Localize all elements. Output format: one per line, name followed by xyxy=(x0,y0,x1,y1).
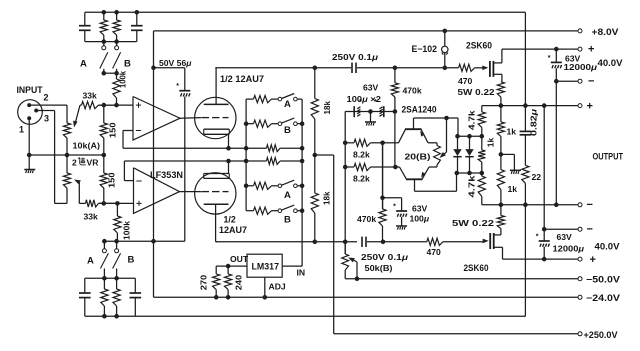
ground stub xyxy=(510,170,521,174)
junction diode bot 2 xyxy=(468,171,472,175)
svg-text:B: B xyxy=(284,125,291,136)
svg-text:470: 470 xyxy=(458,76,473,86)
wire +8V bus (y=31) xyxy=(154,30,578,32)
label A (upper-left) xyxy=(80,59,87,70)
vacuum tube V1 1/2 12AU7 envelope xyxy=(195,97,236,138)
svg-text:2: 2 xyxy=(72,158,77,168)
label 470 upper xyxy=(458,76,473,86)
wire -out (y=205) xyxy=(482,204,578,206)
wire tube1 cathode riser xyxy=(228,134,230,148)
label 18k upper xyxy=(322,101,332,115)
junction EQ-A top 3 xyxy=(135,11,139,15)
junction node B rail xyxy=(152,239,156,243)
potentiometer 20(B) xyxy=(434,146,441,166)
svg-text:470k: 470k xyxy=(403,86,422,96)
ground caps center xyxy=(365,112,376,126)
junction node B 1 xyxy=(103,239,107,243)
wire +40V-2 (y=259) xyxy=(503,258,578,260)
label 250V 0.1u upper xyxy=(332,52,379,62)
capacitor EQ-A left xyxy=(79,12,91,41)
svg-text:INPUT: INPUT xyxy=(17,85,43,95)
junction row3 right xyxy=(300,146,304,150)
svg-text:22: 22 xyxy=(532,172,542,182)
svg-text:4.7k: 4.7k xyxy=(467,175,477,197)
tube2 grid (dashed) xyxy=(202,191,229,193)
svg-text:−: − xyxy=(588,76,594,88)
junction node A 2 xyxy=(115,71,119,75)
capacitor 100uF left (x2 pair) xyxy=(354,99,362,117)
svg-text:12AU7: 12AU7 xyxy=(219,225,247,235)
label 63V (100u) xyxy=(412,204,428,214)
junction -40-1 cap xyxy=(555,79,559,83)
junction EQ-B top 1 xyxy=(103,277,107,281)
transistor Q2 2SA1240 lower xyxy=(400,167,430,191)
label 12000u (1) xyxy=(564,62,598,72)
resistor 150 (A) xyxy=(100,105,107,155)
label 470k upper xyxy=(403,86,422,96)
capacitor 12000uF 63V upper xyxy=(548,49,562,68)
junction -out rail556 xyxy=(555,203,559,207)
label + (40-1) xyxy=(588,44,594,56)
potentiometer 50k(B) xyxy=(342,242,349,279)
node pin 3 xyxy=(35,109,38,112)
label 5W 0.22 upper xyxy=(458,87,495,97)
label 22 xyxy=(532,172,542,182)
resistor 1k lower xyxy=(497,154,504,204)
wire tube1 plate riser xyxy=(215,68,217,105)
resistor 1k (diode column) xyxy=(478,136,485,173)
label INPUT xyxy=(17,85,43,95)
junction wiper top xyxy=(445,116,449,120)
wire -40V-1 (y=81) xyxy=(556,80,577,82)
svg-text:4.7k: 4.7k xyxy=(467,110,477,130)
resistor feedback row4 (on bus2) xyxy=(246,158,302,165)
svg-text:50V 56μ: 50V 56μ xyxy=(159,58,192,68)
label 40.0V (2) xyxy=(595,242,620,252)
resistor feedback row3 (on bus1) xyxy=(246,145,302,152)
label B (lower-left) xyxy=(128,255,135,266)
svg-text:50k(B): 50k(B) xyxy=(365,263,393,273)
wire diode top feed xyxy=(457,118,459,136)
wiper VR-A xyxy=(73,105,80,127)
tube2 cathode xyxy=(204,174,230,179)
svg-text:+250.0V: +250.0V xyxy=(584,330,618,340)
wire 8.2k lower to Q2 xyxy=(395,166,399,168)
junction 0.22-2 top xyxy=(499,203,503,207)
capacitor 0.82uF (Zobel) xyxy=(520,106,532,166)
svg-text:B: B xyxy=(124,59,131,70)
label 8.2k lower xyxy=(353,174,370,184)
label E-102 xyxy=(412,44,438,54)
junction 18k tap xyxy=(313,153,317,157)
resistor+switch row A lower xyxy=(246,180,302,189)
wire +out (y=106) xyxy=(482,105,578,107)
svg-text:1k: 1k xyxy=(486,137,496,147)
label 63V (2) xyxy=(557,232,573,242)
svg-text:40.0V: 40.0V xyxy=(598,58,623,68)
label 4.7k upper xyxy=(467,110,477,130)
label 470 lower xyxy=(427,247,442,257)
resistor 33k (A) xyxy=(80,102,117,109)
label IN xyxy=(297,267,306,277)
terminal +40-1 xyxy=(578,47,582,51)
svg-text:100μ: 100μ xyxy=(410,214,430,224)
junction ladder lowA left xyxy=(244,184,248,188)
svg-text:*: * xyxy=(176,83,179,90)
junction +out cap2rail xyxy=(542,104,546,108)
svg-text:2: 2 xyxy=(44,93,49,103)
junction EQ-A bot 1 xyxy=(102,40,106,44)
wire -40V-2 (y=229) xyxy=(544,228,577,230)
label 100k (A) xyxy=(118,71,128,88)
label OUT xyxy=(230,254,249,264)
wire plate2 line (y=242) xyxy=(216,241,357,243)
wire Q2 bottom out xyxy=(415,173,457,191)
svg-text:150: 150 xyxy=(107,172,117,188)
svg-text:100k: 100k xyxy=(118,71,128,88)
resistor 4.7k lower xyxy=(478,173,485,205)
wire Zobel lower rail x=525 (to bottom loop) xyxy=(524,205,525,316)
wire tube2 cathode riser xyxy=(228,161,230,174)
svg-text:OUT: OUT xyxy=(230,254,249,264)
wire plate1 line cont xyxy=(357,67,459,69)
junction caps center xyxy=(369,110,373,114)
label 1k upper xyxy=(507,127,517,137)
capacitor EQ-B right xyxy=(130,278,142,316)
wire -50V bus xyxy=(345,278,577,280)
capacitor 56uF 50V xyxy=(176,68,190,97)
resistor 4.7k upper xyxy=(478,106,485,137)
capacitor 100uF 63V xyxy=(393,204,407,217)
wire node A (y=73) xyxy=(104,72,117,74)
wire ladder right rail xyxy=(301,99,303,266)
junction E-102 bottom xyxy=(443,66,447,70)
wire opamp1 -in feedback xyxy=(123,131,133,149)
wire 33k-B to opamp2 +in xyxy=(99,202,134,204)
label B (upper-left) xyxy=(124,59,131,70)
label 2SA1240 xyxy=(402,104,437,114)
label 1/2 12AU7 xyxy=(220,74,264,84)
wire cap2 bottom xyxy=(543,247,545,259)
terminal -24V xyxy=(578,295,582,299)
svg-text:150: 150 xyxy=(108,122,118,138)
label 4.7k lower xyxy=(467,175,477,197)
op-amp U1b LF353N xyxy=(134,168,180,214)
label OUTPUT xyxy=(593,151,624,162)
junction +40-1 cap xyxy=(555,47,559,51)
label 150 (A) xyxy=(108,122,118,138)
svg-text:33k: 33k xyxy=(83,91,98,101)
label 1/2 (lower) xyxy=(224,215,236,225)
label 5W 0.22 lower xyxy=(452,218,494,228)
junction caps right xyxy=(393,110,397,114)
resistor 18k lower xyxy=(311,155,318,242)
label LF353N xyxy=(150,170,183,180)
svg-text:470: 470 xyxy=(427,247,442,257)
svg-text:−24.0V: −24.0V xyxy=(586,293,620,303)
junction 150A top xyxy=(102,103,106,107)
label pin 1 xyxy=(19,125,24,135)
wire diode bottom row xyxy=(457,172,482,174)
label 33k (B) xyxy=(84,212,99,222)
junction EQ-A top 1 xyxy=(102,11,106,15)
junction 56u feed on rail xyxy=(152,66,156,70)
resistor 470k upper xyxy=(391,68,398,112)
svg-text:1/2: 1/2 xyxy=(224,215,236,225)
svg-text:470k: 470k xyxy=(357,214,376,224)
svg-text:20(B): 20(B) xyxy=(405,152,431,162)
resistor 8.2k lower xyxy=(345,163,395,170)
svg-text:12000μ: 12000μ xyxy=(564,62,598,72)
wire diode top row xyxy=(458,135,482,137)
junction diode bot 1 xyxy=(455,171,459,175)
junction diode top 1 xyxy=(456,134,460,138)
wire rail 544 down xyxy=(543,106,545,241)
svg-text:0.82μ: 0.82μ xyxy=(529,109,539,136)
svg-text:*: * xyxy=(548,55,551,62)
svg-text:−: − xyxy=(587,224,593,236)
svg-text:*: * xyxy=(393,204,396,211)
ground 100u xyxy=(396,217,407,230)
svg-text:B: B xyxy=(284,215,291,226)
svg-text:2SA1240: 2SA1240 xyxy=(402,104,437,114)
label 100u xyxy=(410,214,430,224)
transistor Q1 2SA1240 upper xyxy=(399,118,429,143)
junction 50k top xyxy=(343,240,347,244)
potentiometer 10k(A) VR channel A xyxy=(63,123,70,155)
wiper 20(B) xyxy=(440,118,447,158)
label - (-out) xyxy=(587,199,593,211)
label A (lower-left) xyxy=(87,256,94,267)
svg-text:ADJ: ADJ xyxy=(269,281,286,291)
wire 56u bottom to node B xyxy=(184,97,186,242)
wire top bus (output+ loop, y=12) xyxy=(85,11,526,13)
resistor 33k (B) xyxy=(79,200,117,207)
label 1k (diode column) xyxy=(486,137,496,147)
resistor EQ-A 2 xyxy=(113,12,120,41)
label -50.0V xyxy=(586,274,620,284)
svg-text:250V 0.1μ: 250V 0.1μ xyxy=(332,52,379,62)
junction source1 xyxy=(499,104,503,108)
label 100u x2 xyxy=(347,94,382,104)
junction 50k wiper xyxy=(355,277,359,281)
svg-text:12000μ: 12000μ xyxy=(553,244,585,254)
wire ladder left rail xyxy=(245,99,247,211)
wire Q2 right to pot bottom xyxy=(429,165,437,167)
svg-text:OUTPUT: OUTPUT xyxy=(593,151,624,162)
svg-text:8.2k: 8.2k xyxy=(353,150,370,160)
resistor 22 (Zobel) xyxy=(522,165,529,204)
junction bus2 rail-left xyxy=(244,159,248,163)
wire B+ riser x=334 (18k tap to +250V) xyxy=(333,155,335,334)
resistor 240 xyxy=(225,266,232,297)
wire LM317 ADJ xyxy=(264,277,266,297)
switch B (lower-left) xyxy=(113,241,121,278)
resistor 100k (A) xyxy=(113,73,120,105)
junction node A 1 xyxy=(102,71,106,75)
label A (ladder lower) xyxy=(284,190,291,201)
wire right loop rail x=525 (top bus down to Zobel) xyxy=(524,12,526,105)
junction pin1/ground xyxy=(27,153,31,157)
capacitor EQ-A right xyxy=(131,12,143,41)
junction 470k upper top xyxy=(393,66,397,70)
label 470k lower xyxy=(357,214,376,224)
svg-text:18k: 18k xyxy=(322,101,332,115)
wire opamp2 out to grid2 xyxy=(180,191,202,193)
resistor 18k upper xyxy=(311,68,318,155)
junction diode bot 3 xyxy=(480,171,484,175)
wire bus2 (opamp2 fb / tube2 top, y=161) xyxy=(124,160,246,162)
svg-text:IN: IN xyxy=(297,267,306,277)
resistor 1k upper xyxy=(497,106,504,155)
resistor 470k lower xyxy=(379,143,386,242)
wire gate1 470 resistor xyxy=(459,64,485,71)
wire plate1 line (y=68) xyxy=(215,67,351,69)
wire gate2 470 resistor xyxy=(427,238,485,245)
label + (+out) xyxy=(587,101,593,113)
wire pin2 to VR-A top xyxy=(29,105,67,123)
svg-text:8.2k: 8.2k xyxy=(353,174,370,184)
wire pin3 down to VR-B bottom xyxy=(36,111,67,204)
junction 8.2k upper left xyxy=(343,141,347,145)
label 33k (A) xyxy=(83,91,98,101)
label -24.0V xyxy=(586,293,620,303)
svg-text:250V 0.1μ: 250V 0.1μ xyxy=(361,252,409,262)
terminal -out xyxy=(578,203,582,207)
wire plate2 line cont xyxy=(367,241,427,243)
junction bus2 tube2 xyxy=(227,159,231,163)
svg-text:E−102: E−102 xyxy=(412,44,438,54)
resistor+switch row A upper xyxy=(246,94,302,103)
IC LM317 box xyxy=(247,254,282,277)
capacitor 0.1uF 250V upper xyxy=(352,63,356,73)
terminal +250V xyxy=(578,332,582,336)
svg-text:240: 240 xyxy=(234,274,244,290)
capacitor EQ-B left xyxy=(79,278,91,316)
tube2 plate xyxy=(204,203,229,205)
wiper 50k xyxy=(348,258,357,279)
wire 470k-lower rail xyxy=(382,143,384,209)
junction 8.2k lower left xyxy=(343,165,347,169)
junction +40-2 xyxy=(542,257,546,261)
junction 8.2k lower right xyxy=(394,165,398,169)
resistor EQ-B 2 xyxy=(113,278,120,316)
svg-text:40.0V: 40.0V xyxy=(595,242,620,252)
junction 240 bottom xyxy=(226,296,230,300)
wire EQ-B top xyxy=(85,277,136,279)
junction 150A bottom xyxy=(102,153,106,157)
svg-text:A: A xyxy=(87,256,94,267)
svg-text:+: + xyxy=(588,44,594,56)
wire 18k tap xyxy=(315,154,334,156)
label 2SK60 upper xyxy=(466,40,492,50)
svg-text:100k: 100k xyxy=(122,221,132,240)
wire bus1 (opamp1 fb / cathode1, y=148) xyxy=(123,147,246,149)
switch B (upper-left) xyxy=(113,42,121,74)
wire rail 556 down xyxy=(555,68,557,205)
wire opamp1 out to grid1 xyxy=(180,117,201,120)
junction EQ-B bot 2 xyxy=(115,314,119,318)
label 10k(A) xyxy=(73,141,101,151)
label 1k lower xyxy=(508,184,518,194)
junction ladder lowB right xyxy=(300,209,304,213)
tube1 plate xyxy=(204,103,229,105)
terminal -40-1 xyxy=(578,79,582,83)
potentiometer 10k(B) VR channel B xyxy=(63,155,70,203)
junction E-102 top xyxy=(443,29,447,33)
wire tube2 plate riser xyxy=(216,204,217,242)
junction 100kB top xyxy=(116,202,120,206)
junction ladder lowA right xyxy=(300,184,304,188)
svg-text:B: B xyxy=(128,255,135,266)
wire 33k-A to opamp1 +in xyxy=(99,104,134,106)
junction row4 right xyxy=(300,159,304,163)
svg-text:63V: 63V xyxy=(557,232,573,242)
label 12AU7 (lower) xyxy=(219,225,247,235)
resistor 150 (B) xyxy=(100,155,107,203)
wire ground bus A (y=155) xyxy=(29,154,104,156)
svg-text:−50.0V: −50.0V xyxy=(586,274,620,284)
svg-text:63V: 63V xyxy=(363,83,379,93)
switch A (upper-left) xyxy=(100,42,108,74)
label 240 xyxy=(234,274,244,290)
wire 8.2k upper to Q1 emitter xyxy=(383,142,399,144)
junction 150B bottom xyxy=(102,202,106,206)
label 0.82u xyxy=(529,109,539,136)
wire LM317 IN xyxy=(282,265,302,267)
terminal +8V xyxy=(578,29,582,33)
label LM317 xyxy=(252,262,280,272)
junction -out Zobel xyxy=(524,203,528,207)
svg-text:1k: 1k xyxy=(507,127,517,137)
svg-text:2SK60: 2SK60 xyxy=(464,263,489,273)
svg-text:LM317: LM317 xyxy=(252,262,280,272)
svg-text:5W 0.22: 5W 0.22 xyxy=(458,87,495,97)
svg-text:A: A xyxy=(284,99,291,110)
label +250.0V xyxy=(584,330,618,340)
label 50V 56u xyxy=(159,58,192,68)
label 8.2k upper xyxy=(353,150,370,160)
wire node B (y=241) xyxy=(104,240,185,242)
label 100k (B) xyxy=(122,221,132,240)
resistor 0.22 5W upper xyxy=(497,82,504,106)
resistor EQ-A 1 xyxy=(100,12,107,41)
svg-text:33k: 33k xyxy=(84,212,99,222)
diode D1 xyxy=(453,136,461,173)
terminal +out xyxy=(578,104,582,108)
wire -24V bus (y=297) xyxy=(154,296,578,298)
junction EQ-A top 2 xyxy=(115,11,119,15)
svg-text:−: − xyxy=(587,199,593,211)
svg-text:63V: 63V xyxy=(412,204,428,214)
label B (ladder upper) xyxy=(284,125,291,136)
node pin 2 xyxy=(28,104,31,107)
ground input xyxy=(24,155,35,173)
junction +out Zobel xyxy=(524,104,528,108)
wire LM317 OUT xyxy=(216,265,247,267)
wire bottom loop (y=316) xyxy=(85,315,526,317)
junction 100u stub xyxy=(381,196,385,200)
label 250V 0.1u lower xyxy=(361,252,409,262)
resistor 0.22 5W lower xyxy=(497,205,504,229)
svg-text:2SK60: 2SK60 xyxy=(466,40,492,50)
terminal +40-2 xyxy=(578,257,582,261)
wire +40V-1 (y=49) xyxy=(502,48,578,50)
label - (40-1) xyxy=(588,76,594,88)
tube1 grid (dashed) xyxy=(202,117,229,119)
resistor+switch row B upper xyxy=(246,118,302,127)
wire Q1 top wire xyxy=(414,117,459,119)
